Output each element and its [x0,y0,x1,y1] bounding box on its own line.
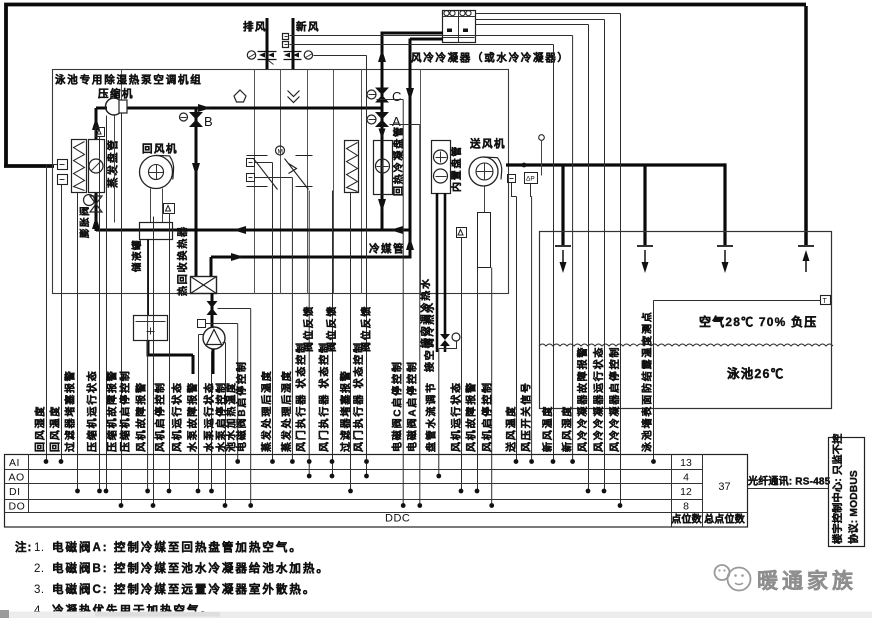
wire 新风湿度 [290,35,573,37]
wire 混风风门执行器 [332,191,334,477]
wire 压缩机启停控制 [121,114,123,506]
solenoid valve B [189,112,203,120]
wire 送风机运行状态 [461,238,463,492]
wire 风冷冷凝器运行状态 [476,19,605,21]
wire 风机运行状态 [169,214,171,492]
svg-text:阀位反馈: 阀位反馈 [325,305,338,352]
pipe - receiver to pool water condenser [147,239,149,315]
wire 送风温度 [512,183,517,197]
svg-text:电磁阀A: 控制冷媒至回热盘管加热空气。: 电磁阀A: 控制冷媒至回热盘管加热空气。 [52,540,303,554]
suction temperature sensor box [96,128,105,137]
air-cooled condenser unit [443,11,476,43]
pipe - heat recovery to water loop elbow [210,257,213,276]
svg-text:风机运行状态: 风机运行状态 [171,381,184,452]
solenoid valve B on water line [207,301,218,308]
fresh air filter [345,141,359,193]
svg-text:风冷冷凝器故障报警: 风冷冷凝器故障报警 [576,346,589,452]
return air temperature sensor box [58,175,68,185]
duct pressure pickup [539,135,545,141]
wire 送风机启停控制 [491,268,493,506]
supply fan scroll [469,157,498,186]
svg-text:泳池专用除湿热泵空调机组: 泳池专用除湿热泵空调机组 [55,73,203,86]
exhaust air duct [266,18,269,69]
pipe - compressor discharge header [122,107,382,110]
svg-text:风压开关信号: 风压开关信号 [520,381,533,452]
pipe - exchanger to pump [211,293,214,328]
svg-text:风机故障报警: 风机故障报警 [135,381,148,452]
return fan pedestal [150,189,152,223]
duct drop to pool 1 [561,165,564,246]
wire 水泵故障报警 [199,334,204,336]
svg-text:压缩机故障报警: 压缩机故障报警 [106,369,119,452]
liquid receiver [140,223,173,240]
svg-text:新风温度: 新风温度 [541,405,554,452]
mixing damper blades [247,155,268,157]
building control center box [829,438,865,547]
svg-text:AO: AO [9,472,25,484]
built-in coil [432,141,451,194]
wire 盘管水流调节 [439,342,457,349]
svg-text:阀位反馈: 阀位反馈 [302,305,315,352]
svg-text:风机故障报警: 风机故障报警 [465,381,478,452]
circulating pump [203,327,225,349]
svg-text:池水加热温度: 池水加热温度 [225,381,238,452]
svg-text:风机启停控制: 风机启停控制 [154,381,167,452]
svg-text:电磁阀C: 控制冷媒至远置冷凝器室外散热。: 电磁阀C: 控制冷媒至远置冷凝器室外散热。 [52,582,316,596]
supply fan sensor box [457,228,467,238]
solenoid valve A [375,112,389,120]
svg-text:DI: DI [9,486,21,498]
pool room box [540,232,832,409]
svg-text:阀位反馈: 阀位反馈 [360,305,373,352]
pipe - condenser return downcomer [410,38,443,41]
wire 风冷冷凝器故障报警 [476,24,589,26]
return air humidity sensor box [58,160,68,170]
svg-text:13: 13 [680,457,692,469]
svg-text:储液罐: 储液罐 [131,239,143,272]
svg-text:新风: 新风 [296,20,320,33]
DDC bus table frame [5,455,748,528]
wire - thick return air duct border from pool to unit [6,5,806,167]
pipe - coil water return [444,193,447,334]
svg-text:水泵运行状态: 水泵运行状态 [203,381,216,453]
duct - supply air main [506,163,725,166]
svg-text:压缩机启停控制: 压缩机启停控制 [119,369,132,452]
wire 水泵运行状态 [211,352,213,492]
wire 过滤器堵塞报警 [77,193,79,492]
svg-text:B: B [204,114,213,129]
svg-text:送风机: 送风机 [469,137,506,150]
svg-text:C: C [392,89,401,104]
svg-text:风冷冷凝器启停控制: 风冷冷凝器启停控制 [608,346,621,452]
reheat condenser coil [374,141,393,195]
pipe - liquid line through receiver [96,229,412,232]
wire 蒸发处理后温度 [255,162,273,164]
svg-text:风门执行器 状态控制: 风门执行器 状态控制 [295,341,308,452]
svg-text:热回收换热器: 热回收换热器 [176,225,189,296]
svg-text:37: 37 [718,481,730,493]
wire 电磁阀B启停控制 [218,308,251,310]
exhaust airflow symbol (pentagon) [234,90,246,102]
wire 电磁阀A启停控制 [390,124,420,126]
pipe - expansion valve riser [95,192,98,231]
svg-text:注:: 注: [15,540,32,554]
pipe - pump outlet stub [212,349,215,374]
wire 新风过滤器堵塞报警 [350,193,352,492]
svg-text:盘管水流调节: 盘管水流调节 [425,381,438,452]
svg-text:压缩机运行状态: 压缩机运行状态 [86,369,99,452]
svg-text:回风温度: 回风温度 [49,405,62,452]
wire 泳池墙表面防结露温度测点 [654,300,821,302]
exhaust damper with actuator [247,51,255,59]
svg-text:泳池26℃: 泳池26℃ [727,366,784,381]
svg-text:ΔP: ΔP [526,176,535,183]
svg-text:风冷冷凝器（或水冷冷凝器）: 风冷冷凝器（或水冷冷凝器） [411,51,570,64]
wire 风机启停控制 [153,217,155,506]
pipe - pool water out [147,340,150,355]
svg-text:新风湿度: 新风湿度 [561,405,574,452]
svg-text:总点位数: 总点位数 [704,513,746,526]
fiber link wire [748,488,829,490]
pool water condenser vessel [134,316,168,341]
fan sensor box [164,204,175,214]
svg-text:1.: 1. [34,542,45,554]
pipe - to condenser [381,32,444,35]
supply fan pedestal duct [484,187,486,213]
svg-text:2.: 2. [34,563,45,575]
wire 蒸发处理后湿度 [255,177,293,179]
pool water surface wavy line [539,344,833,346]
wire 风冷冷凝器启停控制 [476,13,621,15]
fresh air humidity sensor box [283,42,289,48]
svg-text:风冷冷凝器运行状态: 风冷冷凝器运行状态 [592,346,605,452]
duct drop to pool 2 [643,165,646,246]
coil water control valve [440,334,450,340]
wire 压缩机故障报警 [106,116,108,492]
svg-text:排风: 排风 [243,20,267,33]
unit enclosure box (pool dehumidification heat pump AHU) [53,70,509,294]
pipe - suction riser from evaporator [95,108,98,140]
svg-text:冷媒管: 冷媒管 [369,242,405,255]
compressor [106,98,123,115]
svg-text:暖通家族: 暖通家族 [757,569,857,593]
solenoid valve C [375,88,389,96]
svg-text:内置盘管: 内置盘管 [450,145,463,192]
wire 送风机故障报警 [477,268,479,492]
fresh air damper with actuator [304,51,312,59]
pipe - coil water supply [436,193,439,352]
wire 回风湿度 [47,164,58,166]
svg-text:12: 12 [680,486,692,498]
supply duct temperature sensor [508,175,516,183]
heat recovery heat exchanger [191,277,217,294]
duct return riser from pool [804,6,808,246]
wire - compressor to receiver [114,116,116,223]
wire 电磁阀C启停控制 [377,99,404,101]
wire 压缩机运行状态 [99,137,101,492]
filter (return air) [72,140,87,193]
recirculation airflow symbol (double chevron) [288,91,300,97]
wire 风压开关信号 [531,184,532,197]
svg-text:过滤器堵塞报警: 过滤器堵塞报警 [339,369,352,452]
svg-text:风机运行状态: 风机运行状态 [450,381,463,452]
svg-text:风门执行器 状态控制: 风门执行器 状态控制 [352,341,365,452]
svg-text:电磁阀C启停控制: 电磁阀C启停控制 [391,360,404,452]
return fan scroll [140,156,173,189]
svg-text:接空调冷热水: 接空调冷热水 [423,301,436,372]
after-evaporator temperature sensor box [247,159,255,167]
pool wall anti-condensation temperature sensor [821,296,831,305]
supply duct pressure sensor dP [525,173,538,184]
svg-text:光纤通讯: RS-485: 光纤通讯: RS-485 [747,475,831,488]
after-evaporator humidity sensor box [247,174,255,182]
damper motor M [276,146,285,155]
wire 新风温度 [290,44,554,46]
duct drop to pool 3 [723,163,726,246]
svg-text:蒸发处理后温度: 蒸发处理后温度 [260,369,273,452]
svg-text:T: T [823,298,828,305]
evaporator coil [89,140,105,193]
svg-text:送风温度: 送风温度 [505,405,518,453]
wire 水泵启停控制 [223,342,226,344]
watermark logo bubbles [715,565,730,580]
unit section partition lines [121,70,123,294]
bottom gray strip [0,612,872,618]
wire 排风风门执行器 [308,191,310,477]
pipe - solenoid B branch [195,108,198,277]
pipe - valve riser C/A [381,33,384,140]
water temperature sensor box [198,320,206,328]
svg-text:回风湿度: 回风湿度 [34,405,47,452]
svg-text:8: 8 [683,501,689,513]
svg-text:空气28℃ 70% 负压: 空气28℃ 70% 负压 [699,314,817,329]
fresh air duct [292,18,295,69]
svg-text:4: 4 [683,472,689,484]
wire 风机故障报警 [147,241,149,492]
svg-text:过滤器堵塞报警: 过滤器堵塞报警 [64,369,77,452]
expansion valve [90,196,102,204]
fresh air temperature sensor box [283,34,289,40]
wire 新风风门执行器 [314,55,367,57]
svg-text:风机启停控制: 风机启停控制 [481,381,494,452]
svg-text:压缩机: 压缩机 [98,87,134,100]
svg-text:3.: 3. [34,584,45,596]
svg-text:泳池墙表面防结露温度测点: 泳池墙表面防结露温度测点 [641,310,654,452]
svg-text:电磁阀B启停控制: 电磁阀B启停控制 [235,360,248,452]
svg-text:水泵故障报警: 水泵故障报警 [186,381,199,453]
svg-text:DDC: DDC [385,513,410,525]
svg-text:M: M [278,149,283,156]
svg-text:楼宇控制中心: 只监不控: 楼宇控制中心: 只监不控 [831,433,844,544]
svg-text:蒸发处理后湿度: 蒸发处理后湿度 [280,369,293,452]
svg-text:点位数: 点位数 [671,513,702,526]
svg-text:回风机: 回风机 [142,142,178,155]
svg-text:膨胀阀: 膨胀阀 [79,205,91,239]
wire 池水加热温度 [206,323,238,325]
pipe - reheat coil drop [381,127,384,231]
wire 回风温度 [61,185,63,462]
pipe - heat recovery supply line [211,256,412,259]
svg-text:电磁阀B: 控制冷媒至池水冷凝器给池水加热。: 电磁阀B: 控制冷媒至池水冷凝器给池水加热。 [52,561,330,575]
svg-text:协议: MODBUS: 协议: MODBUS [847,470,860,544]
svg-text:AI: AI [9,457,20,469]
svg-text:DO: DO [9,501,26,513]
svg-text:风门执行器 状态控制: 风门执行器 状态控制 [318,341,331,452]
svg-text:蒸发盘管: 蒸发盘管 [106,138,119,188]
svg-text:电磁阀A启停控制: 电磁阀A启停控制 [406,360,419,452]
